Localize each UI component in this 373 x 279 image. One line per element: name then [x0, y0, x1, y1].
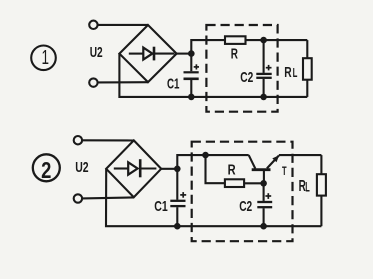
terminal (bottom, circuit 1)	[89, 78, 97, 86]
label RL (circuit 1)	[284, 64, 297, 81]
node A4 (junction dot, bottom of C2)	[260, 94, 267, 101]
node A2 (junction dot, bottom of C1)	[188, 94, 195, 101]
wire: left riser and bottom rail (circuit 2)	[106, 169, 321, 226]
wire: bridge right vertex to node A1	[177, 53, 192, 55]
svg-text:C1: C1	[167, 75, 180, 92]
terminal (top, circuit 1)	[89, 21, 97, 29]
plus mark of C1 (circuit 1)	[194, 64, 199, 69]
node B3 (junction dot on rail)	[202, 152, 209, 159]
capacitor C2 (circuit 1)	[256, 40, 271, 97]
bridge rectifier diamond (circuit 1)	[119, 25, 176, 82]
plus mark of C2 (circuit 2)	[265, 193, 271, 199]
svg-text:R: R	[284, 64, 292, 81]
load resistor RL (circuit 1)	[303, 40, 312, 97]
node A3 (junction dot on top rail)	[260, 37, 267, 44]
node B5 (junction dot, bottom of C2)	[260, 223, 267, 230]
node B1 (junction dot)	[174, 166, 181, 173]
terminal (bottom, circuit 2)	[74, 194, 82, 202]
badge circle 1	[31, 45, 56, 70]
svg-text:R: R	[228, 161, 236, 178]
svg-text:L: L	[305, 179, 310, 194]
dashed box (circuit 1)	[206, 25, 277, 112]
resistor R (circuit 2)	[225, 179, 244, 187]
wire: left riser from bridge left vertex down (circuit 1)	[119, 54, 307, 97]
wire: bridge right vertex to node B1 (circuit 2)	[161, 168, 177, 170]
svg-text:U2: U2	[75, 159, 88, 176]
wire: top rail from R to RL corner	[246, 39, 308, 41]
node B2 (junction dot, bottom of C1)	[174, 223, 181, 230]
diode inside bridge (circuit 2)	[114, 159, 157, 177]
dashed box (circuit 2)	[192, 142, 293, 242]
svg-text:1: 1	[42, 45, 50, 69]
svg-text:U2: U2	[90, 44, 103, 61]
terminal (top, circuit 2)	[74, 136, 82, 144]
svg-text:2: 2	[41, 158, 51, 183]
node B4 (junction dot, base node)	[260, 180, 267, 187]
plus mark of C1 (circuit 2)	[180, 192, 186, 198]
svg-text:C2: C2	[240, 69, 253, 86]
svg-text:R: R	[231, 46, 238, 63]
wire: bottom terminal to bridge bottom vertex (crosses riser)	[98, 81, 148, 83]
capacitor C2 (circuit 2)	[257, 183, 272, 226]
wire: drop from node B3 down to resistor R (circuit 2)	[206, 155, 225, 183]
wire: bottom terminal to bridge bottom vertex (crosses riser, circuit 2)	[82, 197, 134, 198]
capacitor C1 (circuit 2)	[170, 169, 185, 226]
wire: emitter rail to RL corner (circuit 2)	[279, 154, 322, 156]
svg-text:C2: C2	[239, 198, 252, 215]
load resistor RL (circuit 2)	[317, 155, 326, 226]
svg-text:C1: C1	[154, 198, 168, 215]
diode inside bridge (circuit 1)	[129, 47, 175, 61]
node A1 (junction dot)	[188, 50, 195, 57]
label RL (circuit 2)	[299, 178, 310, 195]
svg-text:L: L	[293, 65, 298, 80]
svg-text:T: T	[282, 164, 287, 178]
wire: R to node B4	[244, 182, 264, 184]
bridge rectifier diamond (circuit 2)	[106, 140, 161, 197]
plus mark of C2 (circuit 1)	[266, 65, 272, 71]
wire: riser from node B1 up to rail, rail to node B3	[177, 155, 248, 169]
wire: top terminal to bridge top vertex	[98, 24, 148, 26]
capacitor C1 (circuit 1)	[184, 54, 199, 97]
wire: riser from node A1 up to top rail	[191, 40, 225, 54]
transistor T (series pass, circuit 2)	[249, 155, 280, 183]
resistor R (circuit 1)	[225, 36, 246, 44]
badge circle 2	[33, 154, 60, 183]
wire: top terminal to bridge top vertex (circuit 2)	[82, 139, 134, 141]
